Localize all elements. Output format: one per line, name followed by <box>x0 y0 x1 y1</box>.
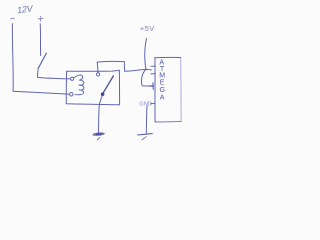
svg-text:E: E <box>160 79 165 86</box>
svg-text:GND: GND <box>139 101 152 107</box>
svg-text:G: G <box>160 87 165 94</box>
svg-text:+5V: +5V <box>140 24 155 33</box>
svg-text:A: A <box>160 95 165 102</box>
svg-text:12V: 12V <box>16 3 34 15</box>
